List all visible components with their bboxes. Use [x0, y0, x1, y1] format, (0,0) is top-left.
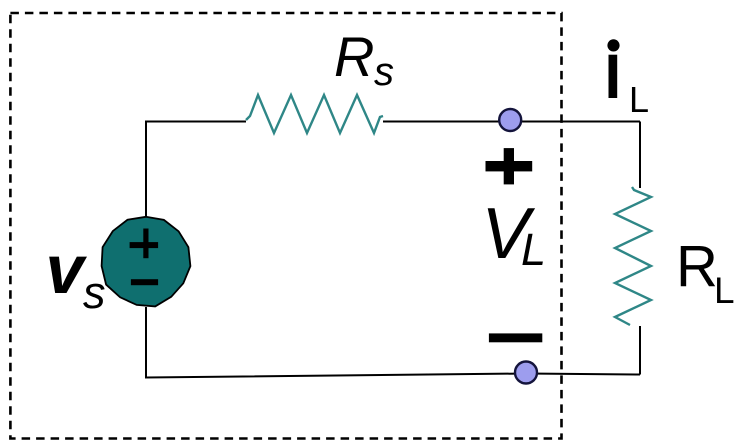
wire: bottom run from right corner through bottom node to source [146, 307, 640, 378]
wire: source top to Rs left [146, 122, 246, 218]
label vs [46, 231, 106, 318]
minus sign inside source [131, 279, 158, 285]
svg-text:s: s [374, 50, 394, 94]
plus sign inside source [130, 229, 159, 259]
svg-text:v: v [46, 231, 88, 308]
voltage source vs (teal circle) [102, 217, 191, 307]
svg-text:s: s [83, 267, 106, 318]
svg-text:L: L [521, 224, 546, 275]
resistor Rs (zigzag) [246, 95, 383, 133]
svg-text:R: R [676, 234, 718, 299]
node A (top, between Rs and RL) [499, 109, 521, 131]
label RL [676, 234, 735, 311]
minus polarity mark for vL [489, 333, 542, 342]
resistor RL (vertical zigzag) [615, 187, 651, 325]
label VL [482, 194, 547, 275]
label iL (load current) [607, 39, 649, 120]
svg-text:L: L [629, 79, 649, 120]
label Rs [334, 25, 394, 94]
node B (bottom) [515, 362, 537, 384]
wire: RL bottom down to bottom-right corner [639, 326, 641, 375]
wire: Rs right to top node and corner [383, 121, 640, 123]
svg-text:R: R [334, 25, 374, 88]
svg-text:L: L [714, 270, 735, 311]
wire: top-right corner down to RL top [639, 122, 641, 189]
plus polarity mark for vL [486, 148, 533, 184]
dashed source-box outline [10, 13, 561, 439]
